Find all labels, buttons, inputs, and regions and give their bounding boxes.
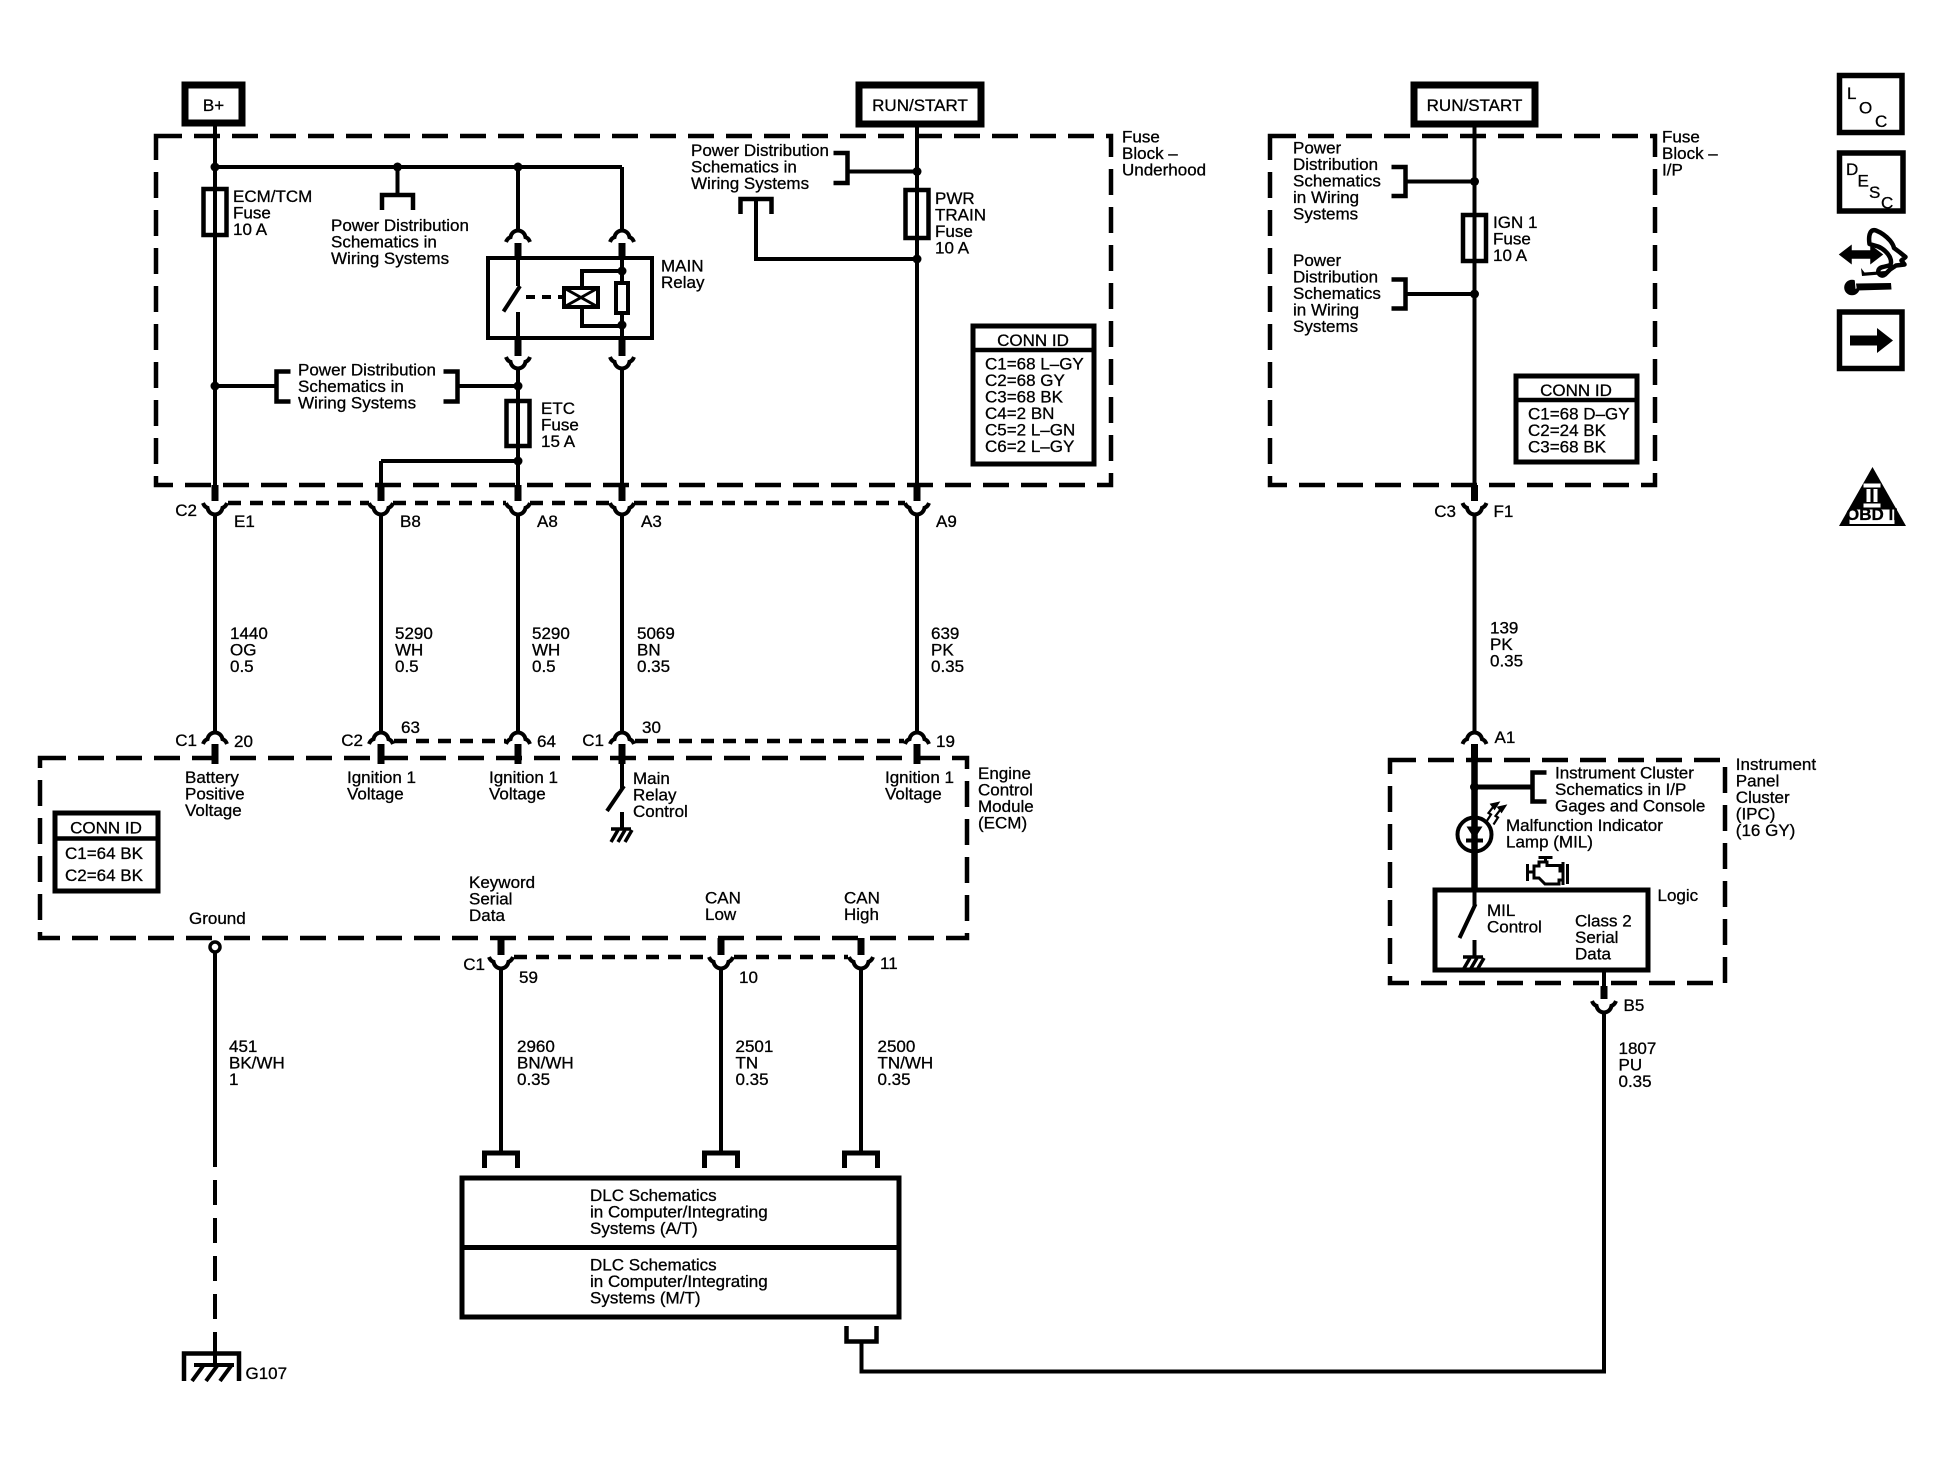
wire ETC junction to B8 drop (381, 459, 518, 463)
svg-text:CONN ID: CONN ID (1540, 381, 1612, 400)
svg-text:59: 59 (519, 968, 538, 987)
wire coil loop (582, 271, 622, 326)
svg-text:Wiring Systems: Wiring Systems (331, 249, 449, 268)
pin stub B8 (378, 485, 385, 501)
svg-text:C: C (1875, 112, 1887, 131)
svg-text:10 A: 10 A (1493, 246, 1528, 265)
svg-text:I/P: I/P (1662, 161, 1683, 180)
svg-text:B+: B+ (203, 96, 224, 115)
wire 5290 WH (B8-63) (379, 513, 383, 733)
svg-text:A3: A3 (641, 512, 662, 531)
svg-text:A8: A8 (537, 512, 558, 531)
wire 1440 OG (213, 513, 217, 733)
node junction below PWR TRAIN fuse (913, 255, 922, 264)
pin stub B5 (1601, 986, 1608, 999)
svg-text:Systems (A/T): Systems (A/T) (590, 1219, 698, 1238)
svg-text:19: 19 (936, 732, 955, 751)
wire 451 BK/WH dashed part (213, 1142, 217, 1349)
svg-text:0.35: 0.35 (736, 1070, 769, 1089)
connector A8 (506, 503, 530, 515)
bracket ] PDS I/P (1) (1392, 167, 1406, 196)
wire 139 PK (1473, 513, 1477, 731)
svg-text:Voltage: Voltage (885, 785, 942, 804)
fuse ECM/TCM Fuse 10 A (204, 189, 227, 235)
svg-text:C3=68 BK: C3=68 BK (1528, 438, 1607, 457)
icon LOC box (1840, 76, 1903, 133)
icon OBD II triangle (1839, 467, 1906, 526)
svg-text:0.35: 0.35 (931, 657, 964, 676)
wire 2501 TN (719, 968, 723, 1153)
connector row: ECM top (394, 739, 506, 744)
node RUN/START power terminal box (I/P) (1414, 85, 1535, 124)
table CONN ID (I/P fuse block) (1516, 376, 1637, 462)
wire junction to left bracket (215, 384, 277, 388)
svg-text:E: E (1858, 172, 1869, 191)
pin stub 10 (718, 938, 725, 955)
pin stub 11 (858, 938, 865, 955)
wire 639 PK (915, 513, 919, 733)
svg-text:High: High (844, 905, 879, 924)
svg-text:(ECM): (ECM) (978, 814, 1027, 833)
svg-text:C1: C1 (175, 731, 197, 750)
connector pin 10 (709, 957, 733, 969)
node junction B+ bus (211, 163, 220, 172)
svg-text:C3: C3 (1434, 502, 1456, 521)
svg-text:Lamp (MIL): Lamp (MIL) (1506, 833, 1593, 852)
node junction ETC wire (514, 382, 523, 391)
svg-text:Systems: Systems (1293, 205, 1358, 224)
connector A3 (610, 503, 634, 515)
IPC (dashed box) (1390, 760, 1725, 983)
wire pin30 into ECM (620, 764, 624, 788)
svg-text:10: 10 (739, 968, 758, 987)
svg-text:OBD II: OBD II (1846, 505, 1898, 524)
wire fork stem elbow to PWR TRAIN wire (756, 199, 917, 259)
svg-text:64: 64 (537, 732, 556, 751)
svg-text:Voltage: Voltage (347, 785, 404, 804)
svg-text:Wiring Systems: Wiring Systems (298, 394, 416, 413)
svg-text:Ground: Ground (189, 909, 246, 928)
ECM (dashed box) (40, 758, 967, 938)
pin stub 59 (498, 938, 505, 955)
wire RUN/START I/P down through IGN1 fuse to connector C3/F1 (1473, 124, 1477, 499)
wire bus down to MAIN relay pin (switch side) (516, 167, 520, 230)
svg-text:C2=64 BK: C2=64 BK (65, 866, 144, 885)
svg-text:0.5: 0.5 (230, 657, 254, 676)
wire junction through ETC fuse down to connector A8 (516, 386, 520, 499)
svg-text:Systems (M/T): Systems (M/T) (590, 1289, 701, 1308)
wire PDS tap stem (396, 167, 400, 195)
svg-text:CONN ID: CONN ID (997, 331, 1069, 350)
fuse ETC Fuse 15 A (507, 401, 530, 446)
wire bracket to junction (848, 170, 918, 174)
wire relay right pin to resistor (620, 258, 624, 283)
relay pin stub top-right (619, 243, 626, 258)
box DLC Schematics (462, 1178, 899, 1317)
wire switch to ground (620, 812, 624, 828)
lamp light arrows (1487, 803, 1506, 825)
svg-text:0.5: 0.5 (532, 657, 556, 676)
lamp MIL (LED symbol) (1458, 818, 1492, 852)
connector pin 19 (905, 732, 929, 744)
wire class2 out of logic box (1602, 970, 1606, 986)
connector pin 20 (203, 732, 227, 744)
wire resistor to relay bottom pin (620, 313, 624, 338)
connector C3/F1 (1463, 503, 1487, 515)
svg-text:0.35: 0.35 (637, 657, 670, 676)
relay switch-to-coil dashed link (526, 295, 562, 299)
svg-text:Low: Low (705, 905, 737, 924)
fuse IGN 1 Fuse 10 A (1463, 215, 1486, 261)
bracket ] PDS I/P (2) (1392, 280, 1406, 309)
svg-text:C6=2 L–GY: C6=2 L–GY (985, 437, 1074, 456)
svg-text:10 A: 10 A (935, 239, 970, 258)
svg-text:Gages and Console: Gages and Console (1555, 797, 1705, 816)
icon arrow box (1840, 312, 1903, 369)
svg-text:F1: F1 (1494, 502, 1514, 521)
bracket [ Instrument Cluster ref (1533, 773, 1547, 802)
svg-text:RUN/START: RUN/START (872, 96, 968, 115)
svg-text:S: S (1869, 183, 1880, 202)
connector A9 (905, 503, 929, 515)
connector socket below relay (left) (506, 357, 530, 369)
connector pin 30 (610, 732, 634, 744)
relay pin stub bottom-right (619, 338, 626, 356)
svg-text:20: 20 (234, 732, 253, 751)
wire 5290 WH (A8-64) (516, 513, 520, 733)
connector pin A1 (1463, 732, 1487, 744)
node junction PDS tap 1 (I/P) (1470, 177, 1479, 186)
node junction MIL/IC schematics tap (1470, 783, 1479, 792)
svg-text:(16 GY): (16 GY) (1736, 821, 1796, 840)
ground (ECM internal) (611, 829, 632, 842)
svg-text:Voltage: Voltage (185, 801, 242, 820)
svg-text:C1=64 BK: C1=64 BK (65, 844, 144, 863)
wire 5069 BN (620, 513, 624, 733)
icon engine (check engine glyph) (1528, 858, 1568, 886)
wire bus from B+ to relay branch (215, 165, 622, 169)
wire relay to ETC junction (516, 369, 520, 386)
svg-text:D: D (1846, 160, 1858, 179)
svg-text:Systems: Systems (1293, 317, 1358, 336)
connector B8 (369, 503, 393, 515)
wire junction to IC bracket (1475, 785, 1533, 790)
svg-text:0.35: 0.35 (878, 1070, 911, 1089)
DLC output staple (847, 1326, 877, 1342)
fuse PWR TRAIN Fuse 10 A (906, 190, 929, 238)
DLC terminal staple (59) (485, 1153, 518, 1168)
wire bracket1 to wire (1406, 180, 1475, 184)
node junction relay coil top (618, 267, 627, 276)
svg-text:RUN/START: RUN/START (1427, 96, 1523, 115)
svg-text:0.5: 0.5 (395, 657, 419, 676)
svg-text:C1: C1 (463, 955, 485, 974)
node junction bus/fork (393, 163, 402, 172)
pin stub E1 (212, 485, 219, 501)
connector pin 59 (489, 957, 513, 969)
svg-text:30: 30 (642, 718, 661, 737)
svg-text:A9: A9 (936, 512, 957, 531)
bracket ] PDS right (444, 372, 458, 402)
wire drop to connector B8 (379, 461, 383, 499)
wire MIL feed (thick, through lamp) (1471, 762, 1478, 890)
bracket [ PDS left (277, 372, 291, 402)
connector E1 (203, 503, 227, 515)
svg-text:C1: C1 (582, 731, 604, 750)
icon DESC box (1840, 153, 1904, 211)
fuse block - underhood (dashed box) (156, 136, 1111, 485)
svg-text:E1: E1 (234, 512, 255, 531)
svg-text:Logic: Logic (1658, 886, 1699, 905)
svg-text:0.35: 0.35 (1619, 1072, 1652, 1091)
wire 2960 BN/WH (499, 968, 503, 1153)
svg-text:0.35: 0.35 (517, 1070, 550, 1089)
node junction PDS tap upper (913, 167, 922, 176)
svg-text:Relay: Relay (661, 273, 705, 292)
pin stub F1 (1471, 485, 1478, 501)
wire bus corner down to MAIN relay pin (coil side) (620, 167, 624, 230)
table CONN ID (underhood fuse block) (973, 326, 1094, 464)
wire bracket2 to wire (1406, 292, 1475, 296)
svg-text:C2: C2 (175, 501, 197, 520)
DLC terminal staple (10) (705, 1153, 738, 1168)
svg-text:0.35: 0.35 (1490, 652, 1523, 671)
svg-text:C2: C2 (341, 731, 363, 750)
svg-text:Data: Data (1575, 945, 1611, 964)
relay coil box with X (564, 288, 598, 307)
pin stub A8 (515, 485, 522, 501)
relay switch (516, 258, 520, 286)
box Logic (1435, 890, 1648, 970)
wire 451 BK/WH solid part (213, 952, 217, 1142)
connector pin 11 (849, 957, 873, 969)
svg-text:15 A: 15 A (541, 432, 576, 451)
svg-text:CONN ID: CONN ID (70, 819, 142, 838)
switch main relay control driver (607, 786, 624, 811)
node junction PDS tap 2 (I/P) (1470, 290, 1479, 299)
svg-text:B8: B8 (400, 512, 421, 531)
icon wrench/double-arrow (1840, 230, 1906, 295)
ground G107 symbol (184, 1354, 239, 1382)
wire 2500 TN/WH (859, 968, 863, 1153)
svg-text:10 A: 10 A (233, 220, 268, 239)
svg-text:Control: Control (633, 802, 688, 821)
node junction ETC/B8 (514, 457, 523, 466)
node RUN/START power terminal box (underhood) (859, 85, 981, 124)
connector socket below relay (right) (610, 357, 634, 369)
off-page fork Power Distribution (bus) (382, 195, 413, 210)
connector pin B5 (1592, 1001, 1616, 1013)
table CONN ID (ECM) (55, 813, 158, 891)
svg-text:Data: Data (469, 906, 505, 925)
switch MIL control (1473, 890, 1477, 906)
wire B+ down through ECM/TCM fuse to connector E1 (213, 123, 217, 499)
svg-text:Underhood: Underhood (1122, 161, 1206, 180)
connector row: fuse block underhood bottom (228, 501, 369, 506)
wire RUN/START down through PWR TRAIN fuse to connector A9 (915, 124, 919, 499)
ground (logic internal) (1463, 957, 1484, 970)
svg-text:L: L (1847, 84, 1856, 103)
fuse block - I/P (dashed box) (1270, 136, 1655, 485)
svg-text:Wiring Systems: Wiring Systems (691, 174, 809, 193)
relay pin stub top-left (515, 243, 522, 258)
node junction at x215 PDS tap (211, 382, 220, 391)
svg-text:C: C (1881, 194, 1893, 213)
connector row: ECM bottom (514, 955, 708, 960)
node junction relay coil bottom (618, 321, 627, 330)
node ground pin (open circle) (210, 942, 220, 952)
off-page fork PDS (3) (741, 199, 772, 214)
svg-text:O: O (1859, 99, 1872, 118)
node junction bus/relay switch wire (514, 163, 523, 172)
svg-text:63: 63 (401, 718, 420, 737)
svg-text:G107: G107 (246, 1364, 288, 1383)
svg-text:B5: B5 (1624, 996, 1645, 1015)
connector socket above relay (left) (506, 230, 530, 242)
connector socket above relay (right) (610, 230, 634, 242)
connector pin 64 (506, 732, 530, 744)
wire right bracket to ETC branch (458, 384, 519, 388)
node B+ power terminal box (185, 85, 242, 123)
wire relay coil side down to connector A3 (620, 369, 624, 499)
svg-text:11: 11 (880, 954, 898, 973)
svg-text:1: 1 (229, 1070, 238, 1089)
DLC terminal staple (11) (845, 1153, 878, 1168)
bracket ] PDS (3) (834, 153, 848, 183)
svg-text:Voltage: Voltage (489, 785, 546, 804)
svg-text:A1: A1 (1495, 728, 1516, 747)
pin stub A3 (619, 485, 626, 501)
pin stub A9 (914, 485, 921, 501)
relay pin stub bottom-left (515, 338, 522, 356)
connector pin 63 (369, 732, 393, 744)
svg-text:Control: Control (1487, 918, 1542, 937)
wire DLC output to IPC class-2 line (862, 1012, 1605, 1372)
relay internal resistor (616, 283, 628, 313)
relay MAIN Relay box (488, 258, 652, 338)
